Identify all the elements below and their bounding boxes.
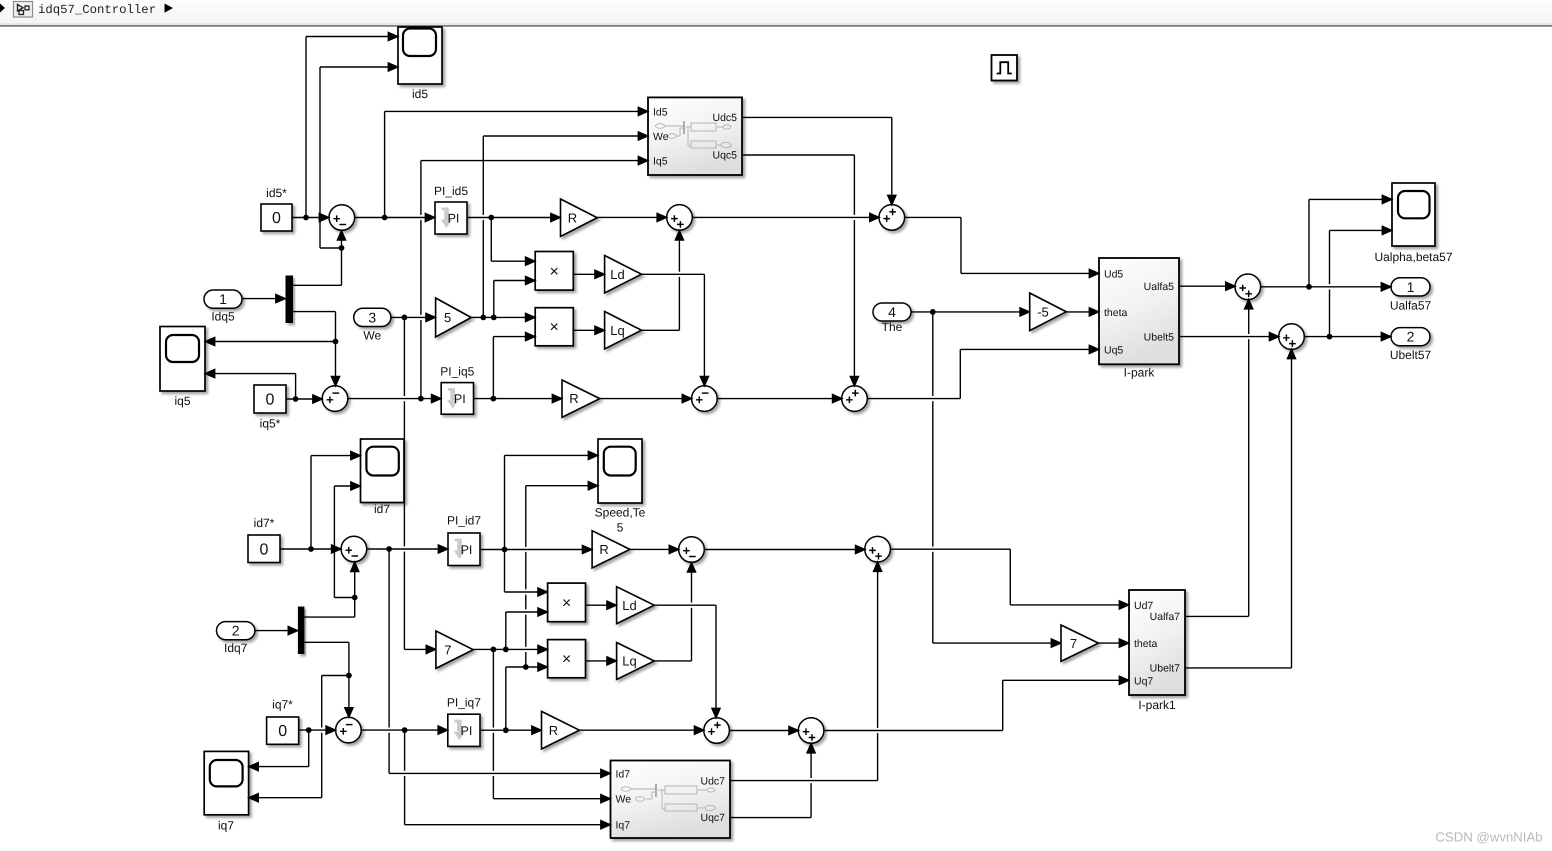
svg-text:Id5: Id5 <box>653 106 668 118</box>
svg-text:Uqc7: Uqc7 <box>700 812 725 824</box>
wire PI_iq7 branch to product q7 low <box>506 663 548 730</box>
sum sum Ualfa57 <box>1235 274 1261 300</box>
product product we*x q5 <box>535 308 573 346</box>
wire Ualfa7 up to sum Ualfa57 <box>1185 299 1253 616</box>
wire Ualfa57 branch to scope in1 <box>1309 195 1392 286</box>
gain R5b value R <box>562 380 600 417</box>
svg-text:The: The <box>882 320 903 334</box>
wire 5we branch to product d5 low <box>494 276 535 317</box>
wire Ud7 to I-park1 <box>890 549 1129 609</box>
svg-text:theta: theta <box>1134 638 1158 650</box>
svg-text:Ud7: Ud7 <box>1134 600 1153 612</box>
svg-text:Uqc5: Uqc5 <box>712 150 737 162</box>
product product we*x d7 <box>548 583 586 622</box>
wire Uq5 to I-park <box>867 345 1099 398</box>
svg-text:1: 1 <box>1407 279 1415 295</box>
wire product d5 to Ld <box>573 270 604 278</box>
wire PI_id7 out to R7a <box>480 545 592 553</box>
PI controller PI_iq7 <box>447 696 481 747</box>
wire 7we branch to product d7 low <box>506 608 548 650</box>
wire We down to gain7 <box>404 317 435 653</box>
wire id7 branch to scope id7 in2 <box>334 482 360 598</box>
wire R7b to sum uq7 a <box>579 726 704 734</box>
svg-text:Lq: Lq <box>610 323 624 338</box>
svg-text:7: 7 <box>444 642 451 657</box>
wire The to gain -5 <box>911 308 1030 316</box>
svg-text:We: We <box>363 329 381 343</box>
svg-text:R: R <box>549 723 558 738</box>
svg-text:Speed,Te: Speed,Te <box>595 506 646 520</box>
svg-text:Ld: Ld <box>610 267 624 282</box>
wire iq7* to sum <box>299 726 336 734</box>
wire sum a to sum b <box>693 213 880 221</box>
svg-text:PI: PI <box>460 724 472 738</box>
svg-text:Ubelt5: Ubelt5 <box>1144 331 1175 343</box>
sum sum ud5 a <box>667 205 693 231</box>
wire id5 error to subsystem Id5 <box>385 107 648 217</box>
svg-text:id5: id5 <box>412 87 428 101</box>
wire PI_iq5 branch to product q5 low <box>493 333 535 399</box>
wire iq7 branch to scope iq7 in2 <box>249 676 349 802</box>
svg-text:theta: theta <box>1104 307 1128 319</box>
svg-text:PI_id7: PI_id7 <box>447 514 481 528</box>
wire id5 branch to scope id5 in2 <box>320 63 398 248</box>
svg-text:Ld: Ld <box>622 598 636 613</box>
wire iq5* branch to scope in2 <box>205 370 295 400</box>
wire Uq7 to I-park1 <box>824 676 1129 730</box>
subsystem harmonic model 5 (Id5,We,Iq5 to Udc5,Uqc5) <box>648 97 742 175</box>
wire R out to sum <box>597 213 666 221</box>
wire sum to PI_id7 <box>367 545 448 553</box>
constant iq5* reference value 0 <box>254 385 286 431</box>
pulse generator block <box>992 55 1018 81</box>
wire 5We to subsystem We <box>483 132 648 318</box>
svg-text:Udc7: Udc7 <box>700 776 725 788</box>
scope id7 <box>361 439 405 516</box>
subsystem harmonic model 7 (Id7,We,Iq7 to Udc7,Uqc7) <box>611 761 731 839</box>
svg-text:We: We <box>653 131 669 143</box>
wire Udc7 to sum ud7 b bottom <box>730 562 882 781</box>
svg-text:5: 5 <box>444 310 451 325</box>
gain Lq7 value Lq <box>617 643 655 680</box>
svg-text:iq7*: iq7* <box>272 698 293 712</box>
svg-text:2: 2 <box>232 623 240 639</box>
svg-text:iq5*: iq5* <box>260 417 281 431</box>
scope iq7 <box>204 751 248 832</box>
svg-text:×: × <box>562 651 571 668</box>
wire Uqc7 to sum uq7 b bottom <box>730 743 815 817</box>
svg-text:Ualfa5: Ualfa5 <box>1144 281 1175 293</box>
PI controller PI_id5 <box>434 184 468 234</box>
wire id7* branch to scope id7 in1 <box>311 452 360 550</box>
svg-text:Ubelt7: Ubelt7 <box>1150 663 1181 675</box>
wire sum uq5 a to b <box>717 395 842 403</box>
subsystem I-park <box>1099 258 1179 380</box>
wire iq5 error to PI_iq5 <box>348 395 441 403</box>
input port 1 Idq5 <box>204 290 242 324</box>
breadcrumb toolbar <box>0 0 1552 27</box>
gain R5a value R <box>561 199 598 237</box>
gain Ld5 value Ld <box>605 256 642 294</box>
gain Ld7 value Ld <box>617 587 655 624</box>
wire Ubelt5 to sum <box>1179 333 1279 341</box>
wire Ualfa5 to sum <box>1179 282 1235 290</box>
svg-text:Uq5: Uq5 <box>1104 344 1123 356</box>
svg-text:PI: PI <box>454 392 466 406</box>
sum sum ud7 a <box>679 537 705 563</box>
svg-text:Udc5: Udc5 <box>712 112 737 124</box>
svg-text:Lq: Lq <box>622 654 636 669</box>
wire theta down to gain7b <box>933 312 1061 647</box>
svg-text:5: 5 <box>617 521 624 535</box>
wire demux id5 out to sum bottom <box>293 231 346 286</box>
svg-text:iq7: iq7 <box>218 819 234 833</box>
wire 5we row to product q5 <box>471 313 535 321</box>
scope Speed,Te scope <box>595 439 646 520</box>
wire gain7b to I-park1 theta <box>1098 639 1128 647</box>
gain gain -5 (theta x-5) value -5 <box>1030 293 1067 331</box>
svg-text:0: 0 <box>272 210 281 227</box>
svg-text:PI: PI <box>461 543 473 557</box>
demux demux idq5 <box>286 276 294 324</box>
wire We to gain5 <box>391 313 435 321</box>
svg-text:R: R <box>568 210 577 225</box>
PI controller PI_iq5 <box>440 365 474 415</box>
sum sum iq5 error <box>322 386 348 412</box>
svg-text:Id7: Id7 <box>616 768 631 780</box>
wire Lq out to sum ud5 bottom <box>642 231 684 331</box>
wire PI_iq7 out to R7b <box>480 726 541 734</box>
wire Lq7 out to sum ud7 bottom <box>654 563 695 661</box>
wire iq5 to scope in1 <box>205 337 335 345</box>
sum sum id7 error <box>341 536 367 562</box>
wire sum to Ualfa57 <box>1261 283 1391 291</box>
wire Ld out to sum uq5 top <box>642 274 709 386</box>
svg-text:PI: PI <box>448 212 460 226</box>
svg-text:PI_id5: PI_id5 <box>434 184 468 198</box>
svg-text:3: 3 <box>368 309 376 325</box>
wire iq5* to sum <box>286 395 322 403</box>
constant iq7* reference value 0 <box>267 698 299 745</box>
svg-text:I-park: I-park <box>1124 366 1156 380</box>
wire id7 error to subsystem Id7 <box>389 549 610 778</box>
svg-text:Idq7: Idq7 <box>224 641 248 655</box>
wire R7a to sum ud7 a <box>630 545 679 553</box>
svg-text:7: 7 <box>1070 636 1077 651</box>
output port 1 Ualfa57 <box>1390 278 1432 313</box>
svg-text:Ualfa57: Ualfa57 <box>1390 299 1432 313</box>
breadcrumb back arrow <box>0 4 5 13</box>
svg-text:0: 0 <box>260 541 269 558</box>
svg-text:PI_iq5: PI_iq5 <box>440 365 474 379</box>
gain gain7b (theta x7) value 7 <box>1061 625 1098 661</box>
gain R7b value R <box>542 711 580 749</box>
wire R to sum uq5 a <box>600 395 692 403</box>
wire sum ud7 a to b <box>705 545 866 553</box>
svg-text:Iq5: Iq5 <box>653 156 668 168</box>
sum sum id5 error <box>329 205 355 231</box>
sum sum uq5 b <box>842 386 868 412</box>
svg-text:idq57_Controller: idq57_Controller <box>38 3 156 17</box>
sum sum Ubelt57 <box>1279 324 1305 350</box>
wire sum to PI_id5 <box>355 213 435 221</box>
svg-text:Idq5: Idq5 <box>211 310 235 324</box>
constant id7* reference value 0 <box>248 516 280 563</box>
svg-text:0: 0 <box>278 723 287 740</box>
gain Lq5 value Lq <box>605 312 642 350</box>
breadcrumb forward arrow <box>165 4 174 13</box>
svg-text:PI_iq7: PI_iq7 <box>447 696 481 710</box>
wire product q5 to Lq <box>573 326 604 334</box>
wire PI_id7 branch to product d7 <box>505 550 548 597</box>
wire PI_id5 out to R <box>467 213 560 221</box>
wire Ubelt57 branch to scope in2 <box>1330 226 1392 336</box>
svg-text:4: 4 <box>888 304 896 320</box>
svg-text:×: × <box>562 595 571 612</box>
wire iq7 error to subsystem Iq7 <box>405 730 611 829</box>
breadcrumb model icon <box>14 2 33 18</box>
wire PI_iq5 to R <box>474 395 562 403</box>
wire Uqc5 to sum uq5 b top <box>742 155 859 386</box>
wire product q7 to Lq7 <box>586 657 617 665</box>
svg-text:Iq7: Iq7 <box>616 820 631 832</box>
svg-text:Ubelt57: Ubelt57 <box>1390 348 1432 362</box>
input port 2 Idq7 <box>217 622 255 655</box>
demux demux idq7 <box>298 607 305 655</box>
svg-text:Ualpha,beta57: Ualpha,beta57 <box>1374 250 1452 264</box>
sum sum ud5 b <box>879 205 905 231</box>
scope id5 <box>398 27 442 101</box>
wire Udc5 to sum top <box>742 117 896 204</box>
subsystem I-park1 <box>1129 590 1185 712</box>
wire iq5 error to subsystem Iq5 <box>421 157 648 399</box>
svg-text:Ualfa7: Ualfa7 <box>1150 611 1181 623</box>
wire sum to PI_iq7 <box>361 726 447 734</box>
svg-text:×: × <box>550 319 559 336</box>
svg-text:1: 1 <box>219 291 227 307</box>
wire sum to Ubelt57 <box>1304 333 1391 341</box>
PI controller PI_id7 <box>447 514 481 566</box>
wire id5* to sum <box>292 213 329 221</box>
svg-text:Uq7: Uq7 <box>1134 675 1153 687</box>
product product we*x d5 <box>535 252 573 291</box>
wire PI_id5 branch to product d5 <box>491 218 535 266</box>
wire -5 out to I-park theta <box>1066 308 1099 316</box>
wire Ld7 out to sum uq7 top <box>654 605 720 718</box>
wire PI_iq7 branch to Speed scope in2 <box>526 482 598 667</box>
scope Ualpha,beta57 <box>1374 183 1452 264</box>
svg-text:×: × <box>550 263 559 280</box>
svg-text:I-park1: I-park1 <box>1138 698 1176 712</box>
svg-text:iq5: iq5 <box>174 394 190 408</box>
gain gain7 (We x7) value 7 <box>436 631 473 668</box>
input port 4 The <box>873 303 911 334</box>
svg-text:2: 2 <box>1407 329 1415 345</box>
wire iq7* branch to scope iq7 in1 <box>249 730 309 771</box>
svg-text:-5: -5 <box>1037 304 1049 319</box>
wire PI_id7 branch to Speed scope in1 <box>505 451 598 549</box>
svg-text:id7: id7 <box>374 502 390 516</box>
svg-text:id5*: id5* <box>266 186 287 200</box>
sum sum uq7 b <box>798 718 824 744</box>
constant id5* reference value 0 <box>261 186 292 231</box>
svg-text:0: 0 <box>266 392 275 409</box>
wire Idq7 to demux <box>255 627 298 635</box>
wire demux id7 out to sum bottom <box>304 562 358 617</box>
wire demux iq7 out to sum top <box>304 642 353 717</box>
wire id7* to sum <box>280 545 341 553</box>
output port 2 Ubelt57 <box>1390 328 1432 362</box>
sum sum ud7 b <box>865 536 891 562</box>
svg-text:CSDN @wvnNIAb: CSDN @wvnNIAb <box>1435 830 1542 845</box>
wire Ubelt7 up to sum Ubelt57 <box>1185 349 1296 668</box>
wire product d7 to Ld7 <box>586 601 617 609</box>
wire Ud5 to I-park <box>905 217 1099 277</box>
svg-text:R: R <box>569 391 578 406</box>
sum sum uq5 a <box>692 386 718 412</box>
wire demux iq5 out to sum top <box>293 312 340 386</box>
svg-text:R: R <box>599 542 608 557</box>
input port 3 We <box>354 308 391 342</box>
wire gain7 out to product q7 <box>473 645 547 653</box>
wire Idq5 to demux <box>242 295 285 303</box>
wire id5* branch to scope id5 in1 <box>306 32 398 217</box>
svg-text:Ud5: Ud5 <box>1104 268 1123 280</box>
gain R7a value R <box>592 531 630 568</box>
sum sum uq7 a <box>704 718 730 744</box>
scope iq5 <box>160 327 205 409</box>
svg-text:We: We <box>616 794 632 806</box>
svg-text:id7*: id7* <box>254 516 275 530</box>
sum sum iq7 error <box>336 717 362 743</box>
wire 7we branch to subsystem We <box>493 649 610 802</box>
product product we*x q7 <box>548 640 586 678</box>
gain gain5 (We x5) value 5 <box>436 298 472 337</box>
wire sum uq7 a to b <box>730 726 799 734</box>
